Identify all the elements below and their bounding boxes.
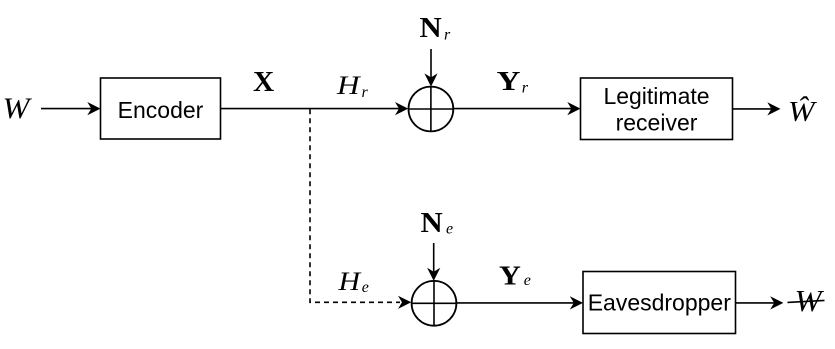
adder U1 (legitimate channel sum) (409, 87, 454, 132)
svg-text:Encoder: Encoder (118, 97, 204, 123)
block Encoder (101, 78, 221, 139)
svg-text:W: W (3, 91, 33, 125)
wire W to Encoder (41, 108, 92, 110)
wire Encoder to adder1 (221, 108, 400, 110)
wire receiver to W-hat (733, 108, 773, 110)
svg-text:e: e (362, 279, 369, 296)
wire dashed branch X to adder2 (310, 109, 400, 302)
wire adder1 to Legitimate receiver (453, 108, 572, 110)
wire adder2 to Eavesdropper (456, 302, 574, 304)
wire Eavesdropper to W-slash (736, 302, 776, 304)
svg-text:r: r (362, 84, 369, 101)
svg-text:H: H (336, 71, 362, 100)
adder U2 (eavesdropper channel sum) (412, 281, 457, 326)
svg-text:Legitimate: Legitimate (603, 83, 709, 109)
svg-text:receiver: receiver (616, 109, 698, 135)
svg-text:N: N (420, 13, 442, 43)
svg-text:Y: Y (499, 261, 521, 291)
svg-text:Eavesdropper: Eavesdropper (588, 289, 732, 315)
svg-text:H: H (337, 268, 362, 297)
wire N_e into adder2 (433, 243, 435, 272)
svg-text:r: r (522, 80, 529, 97)
svg-text:r: r (444, 27, 451, 44)
svg-text:Y: Y (497, 66, 521, 96)
block Eavesdropper (583, 272, 736, 334)
svg-text:X: X (253, 66, 275, 97)
svg-text:e: e (446, 221, 453, 238)
svg-text:e: e (524, 272, 531, 289)
wire N_r into adder1 (430, 49, 432, 78)
block Legitimate receiver (581, 78, 733, 140)
svg-text:N: N (421, 208, 443, 238)
svg-text:Ŵ: Ŵ (788, 95, 817, 127)
